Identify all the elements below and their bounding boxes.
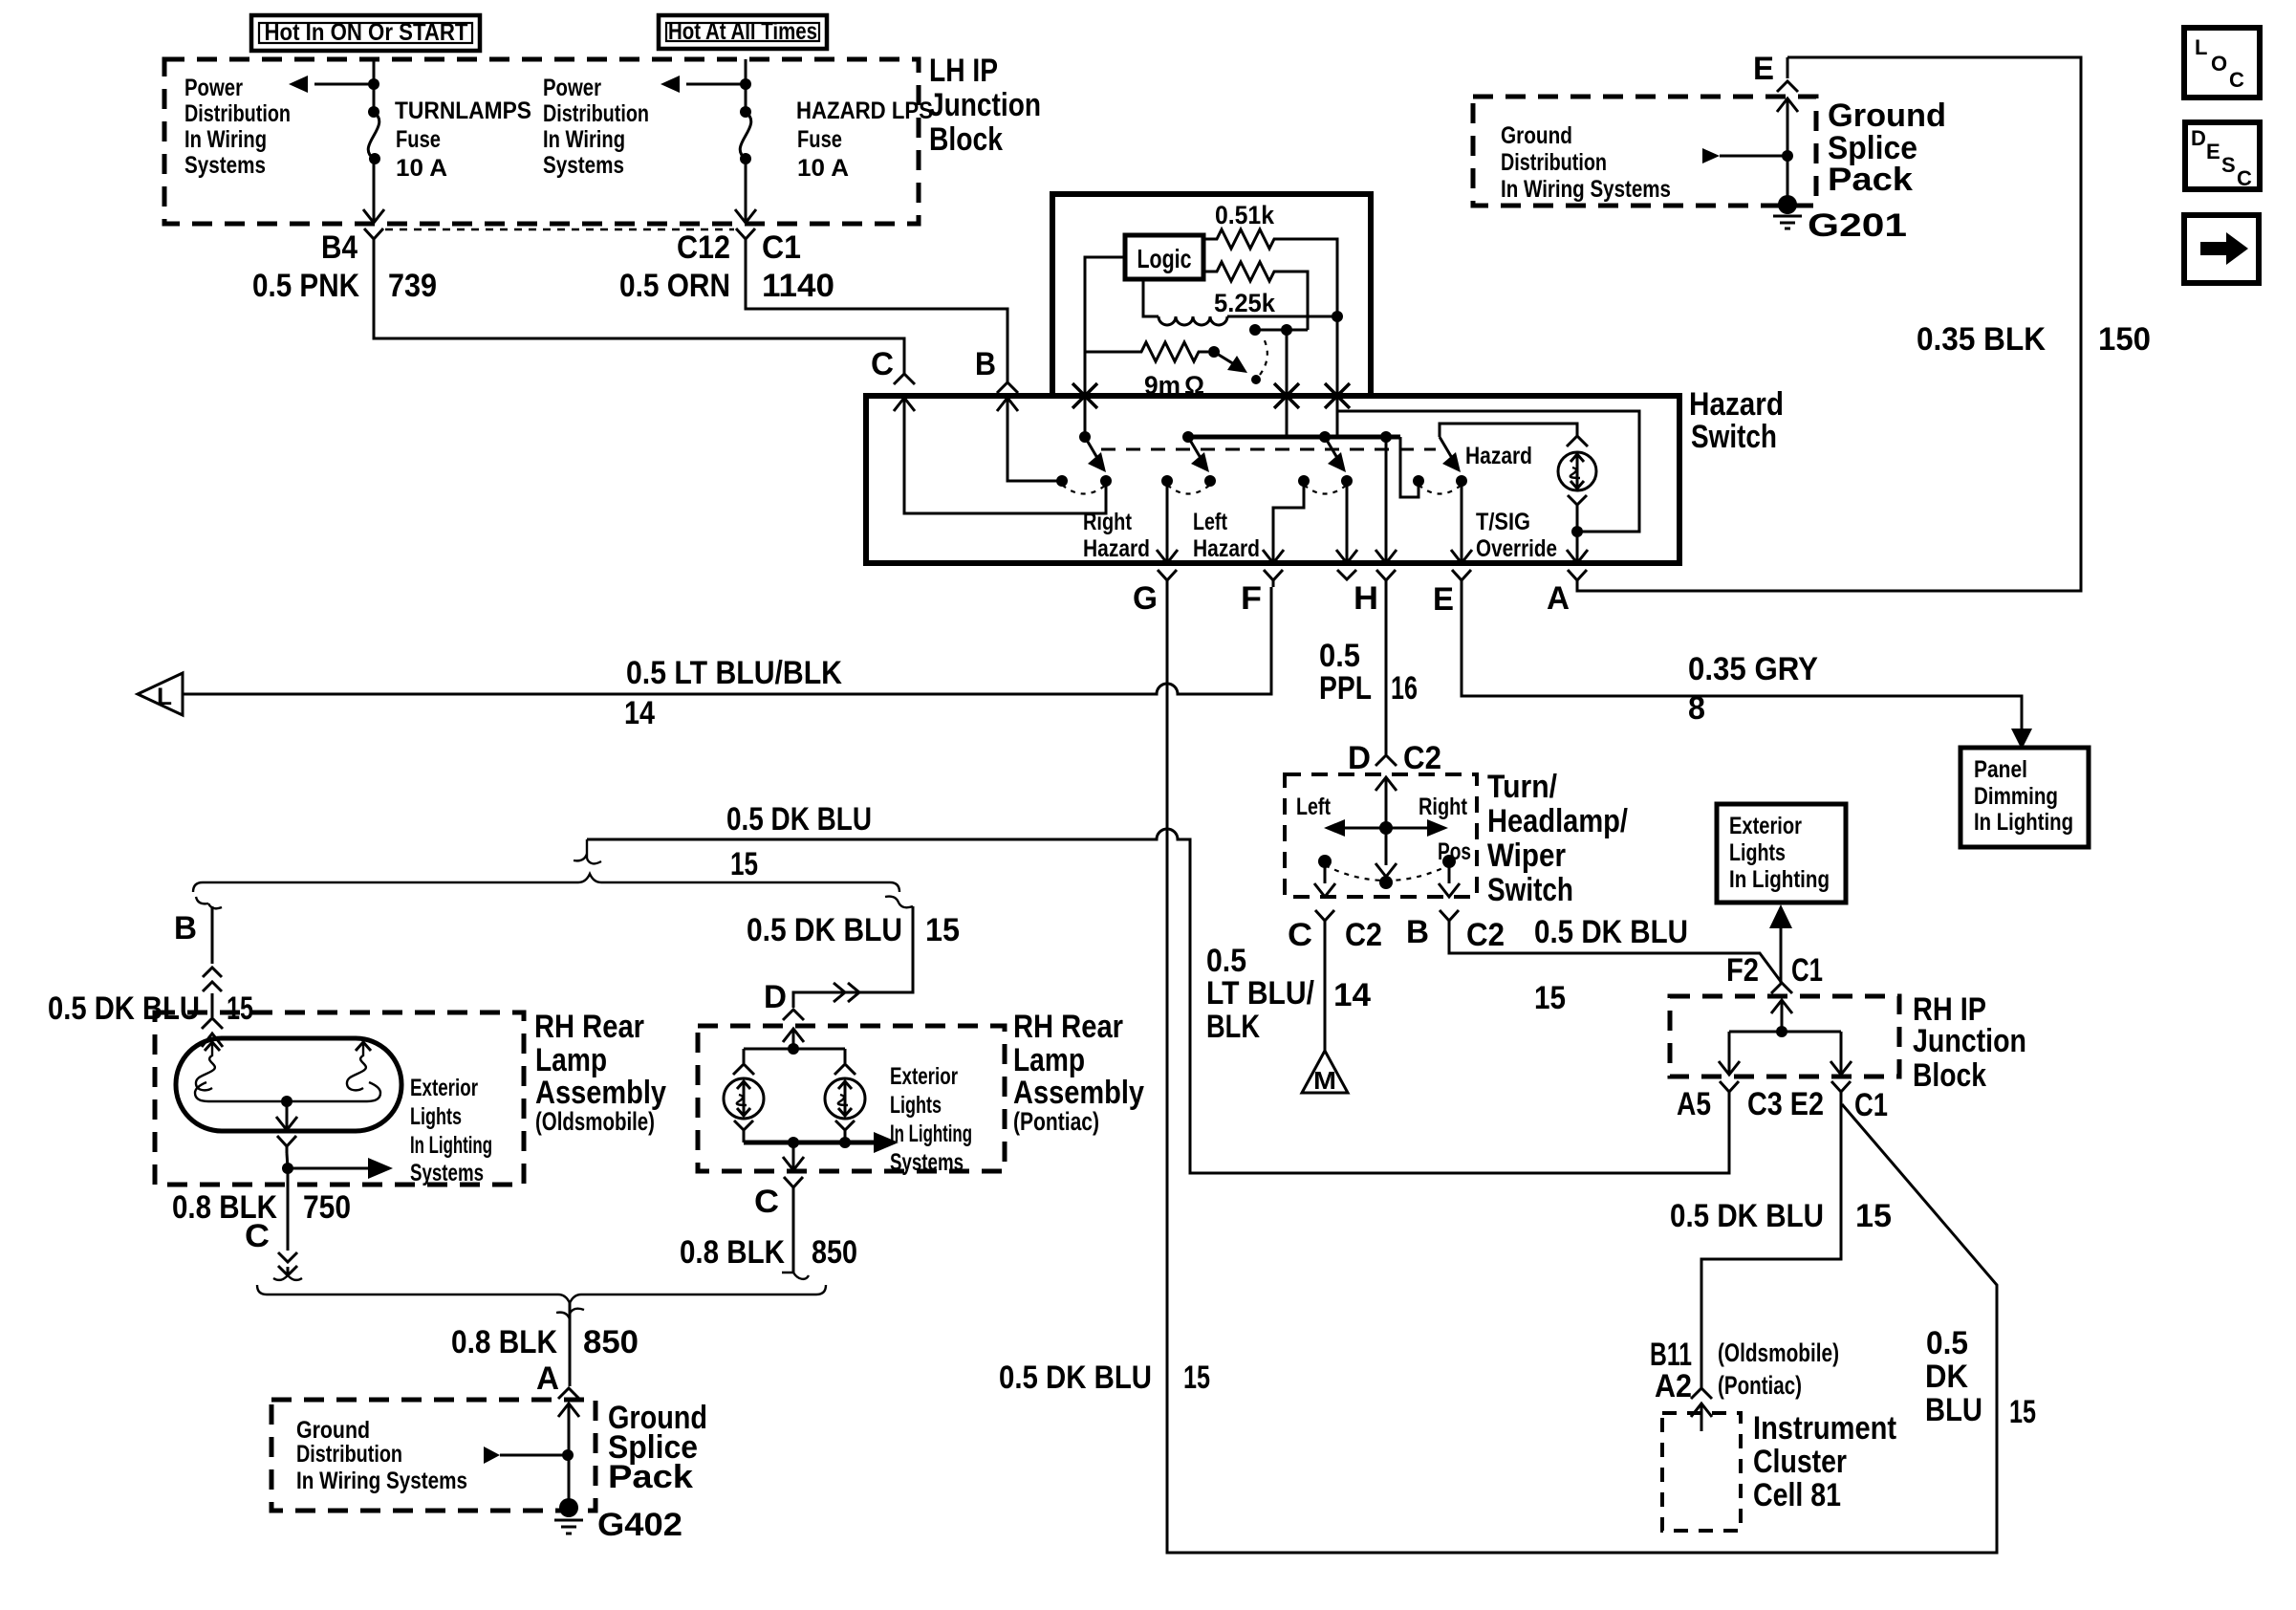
svg-text:C: C <box>2229 68 2244 92</box>
svg-text:14: 14 <box>624 695 655 731</box>
svg-text:C1: C1 <box>1791 952 1823 989</box>
svg-text:Pack: Pack <box>1828 162 1913 198</box>
svg-text:Hazard: Hazard <box>1083 535 1150 562</box>
svg-text:E: E <box>2206 140 2220 163</box>
svg-text:H: H <box>1354 580 1378 617</box>
svg-text:8: 8 <box>1688 690 1705 727</box>
svg-text:Hazard: Hazard <box>1193 535 1260 562</box>
svg-text:Power: Power <box>184 75 243 101</box>
svg-text:Switch: Switch <box>1691 419 1777 455</box>
svg-text:HAZARD LPS: HAZARD LPS <box>796 98 933 124</box>
svg-text:C12: C12 <box>677 229 730 266</box>
svg-text:Headlamp/: Headlamp/ <box>1487 803 1628 839</box>
svg-text:0.5 DK BLU: 0.5 DK BLU <box>726 801 872 838</box>
svg-text:C2: C2 <box>1403 740 1441 776</box>
svg-text:Fuse: Fuse <box>396 126 441 153</box>
svg-text:Left: Left <box>1193 509 1228 535</box>
svg-text:0.5 DK BLU: 0.5 DK BLU <box>747 912 902 948</box>
svg-text:Junction: Junction <box>1913 1023 2026 1059</box>
svg-text:PPL: PPL <box>1319 670 1372 707</box>
svg-text:C2: C2 <box>1466 917 1505 953</box>
svg-text:Cluster: Cluster <box>1753 1444 1847 1480</box>
svg-text:A5: A5 <box>1677 1086 1711 1122</box>
svg-text:In Wiring: In Wiring <box>543 126 625 153</box>
svg-text:0.5 DK BLU: 0.5 DK BLU <box>999 1360 1152 1396</box>
svg-text:750: 750 <box>303 1189 351 1226</box>
svg-text:16: 16 <box>1391 670 1418 707</box>
svg-text:9m: 9m <box>1144 371 1180 400</box>
svg-text:Ground: Ground <box>296 1417 370 1444</box>
svg-text:In Wiring: In Wiring <box>184 126 267 153</box>
svg-text:(Oldsmobile): (Oldsmobile) <box>1718 1338 1839 1367</box>
svg-text:(Pontiac): (Pontiac) <box>1013 1107 1099 1136</box>
svg-text:F2: F2 <box>1726 952 1759 989</box>
svg-text:10 A: 10 A <box>797 155 849 182</box>
svg-text:RH Rear: RH Rear <box>1013 1009 1123 1045</box>
svg-text:Ground: Ground <box>1828 98 1946 134</box>
svg-text:Block: Block <box>1913 1057 1986 1094</box>
svg-text:In Wiring Systems: In Wiring Systems <box>1501 176 1671 203</box>
svg-text:Pos: Pos <box>1438 838 1471 865</box>
svg-text:Lamp: Lamp <box>1013 1042 1085 1078</box>
svg-text:Right: Right <box>1083 509 1133 535</box>
svg-text:Right: Right <box>1419 794 1468 820</box>
svg-text:DK: DK <box>1925 1359 1968 1395</box>
svg-text:15: 15 <box>730 846 758 882</box>
svg-text:F: F <box>1241 580 1262 617</box>
svg-text:Instrument: Instrument <box>1753 1410 1896 1447</box>
svg-text:0.8 BLK: 0.8 BLK <box>451 1324 557 1360</box>
svg-text:B: B <box>1406 914 1429 950</box>
svg-text:T/SIG: T/SIG <box>1476 509 1530 535</box>
svg-text:15: 15 <box>2009 1394 2036 1430</box>
svg-text:Assembly: Assembly <box>1013 1075 1144 1111</box>
svg-text:G201: G201 <box>1808 207 1907 244</box>
svg-text:G: G <box>1133 580 1158 617</box>
svg-text:Lamp: Lamp <box>535 1042 607 1078</box>
svg-text:L: L <box>2195 35 2207 59</box>
svg-text:D: D <box>764 979 787 1015</box>
svg-text:0.5: 0.5 <box>1319 638 1360 674</box>
svg-text:C: C <box>245 1218 270 1254</box>
svg-text:Hot At All Times: Hot At All Times <box>668 18 817 45</box>
svg-text:In Lighting: In Lighting <box>410 1132 492 1159</box>
svg-text:In Wiring Systems: In Wiring Systems <box>296 1468 467 1494</box>
svg-text:Override: Override <box>1476 535 1557 562</box>
svg-text:Hot In ON Or START: Hot In ON Or START <box>265 19 468 46</box>
svg-text:C: C <box>754 1184 779 1220</box>
svg-text:Block: Block <box>929 121 1003 158</box>
svg-text:Exterior: Exterior <box>890 1063 958 1090</box>
svg-text:In Lighting: In Lighting <box>1729 866 1830 893</box>
svg-text:0.35 BLK: 0.35 BLK <box>1917 321 2046 358</box>
svg-text:G402: G402 <box>597 1507 682 1543</box>
svg-text:C: C <box>2237 166 2252 190</box>
svg-text:C: C <box>871 346 894 382</box>
svg-text:A2: A2 <box>1655 1368 1692 1404</box>
svg-text:15: 15 <box>227 990 253 1027</box>
svg-text:850: 850 <box>812 1234 857 1271</box>
svg-text:C1: C1 <box>1854 1087 1888 1123</box>
svg-text:Assembly: Assembly <box>535 1075 666 1111</box>
svg-text:S: S <box>2221 153 2236 177</box>
svg-text:150: 150 <box>2098 321 2151 358</box>
svg-text:LH IP: LH IP <box>929 53 998 89</box>
svg-text:B4: B4 <box>321 229 357 266</box>
svg-text:Systems: Systems <box>184 152 266 179</box>
svg-text:Lights: Lights <box>890 1092 942 1119</box>
svg-text:D: D <box>1348 740 1371 776</box>
svg-text:0.5 DK BLU: 0.5 DK BLU <box>1670 1198 1824 1234</box>
svg-text:D: D <box>2191 126 2206 150</box>
svg-text:C3 E2: C3 E2 <box>1747 1086 1824 1122</box>
svg-text:Logic: Logic <box>1137 244 1192 273</box>
svg-text:Wiper: Wiper <box>1487 838 1566 874</box>
svg-text:Switch: Switch <box>1487 872 1573 908</box>
svg-text:E: E <box>1753 51 1774 87</box>
svg-text:14: 14 <box>1333 977 1371 1013</box>
svg-text:0.5: 0.5 <box>1926 1325 1968 1361</box>
svg-text:Pack: Pack <box>608 1459 693 1495</box>
svg-text:BLU: BLU <box>1925 1392 1982 1428</box>
svg-text:Exterior: Exterior <box>1729 813 1802 839</box>
svg-text:0.35 GRY: 0.35 GRY <box>1688 651 1818 687</box>
svg-text:E: E <box>1433 581 1454 618</box>
svg-text:LT BLU/: LT BLU/ <box>1206 975 1314 1012</box>
svg-text:0.5 ORN: 0.5 ORN <box>619 268 730 304</box>
svg-text:0.5 DK BLU: 0.5 DK BLU <box>48 990 200 1027</box>
svg-text:C2: C2 <box>1345 917 1382 953</box>
svg-text:Lights: Lights <box>1729 839 1786 866</box>
svg-text:0.5 LT BLU/BLK: 0.5 LT BLU/BLK <box>626 655 842 691</box>
svg-text:Hazard: Hazard <box>1465 443 1532 469</box>
svg-text:0.5 PNK: 0.5 PNK <box>252 268 359 304</box>
svg-text:Distribution: Distribution <box>296 1441 402 1468</box>
svg-text:5.25k: 5.25k <box>1214 289 1276 317</box>
svg-text:A: A <box>536 1360 559 1397</box>
svg-text:Ground: Ground <box>1501 122 1572 149</box>
svg-text:B: B <box>174 910 197 946</box>
svg-text:(Oldsmobile): (Oldsmobile) <box>535 1107 655 1136</box>
svg-text:15: 15 <box>1855 1198 1892 1234</box>
svg-text:739: 739 <box>388 268 437 304</box>
svg-text:Distribution: Distribution <box>543 100 649 127</box>
svg-text:Power: Power <box>543 75 601 101</box>
svg-text:Exterior: Exterior <box>410 1075 478 1101</box>
svg-text:Turn/: Turn/ <box>1487 769 1557 805</box>
svg-text:Ω: Ω <box>1184 371 1204 400</box>
svg-text:15: 15 <box>1183 1360 1210 1396</box>
svg-text:0.8 BLK: 0.8 BLK <box>680 1234 785 1271</box>
svg-text:Lights: Lights <box>410 1103 462 1130</box>
svg-text:TURNLAMPS: TURNLAMPS <box>395 98 531 124</box>
svg-text:Hazard: Hazard <box>1689 386 1784 423</box>
svg-text:Panel: Panel <box>1974 756 2027 783</box>
svg-text:A: A <box>1547 580 1570 617</box>
svg-text:15: 15 <box>925 912 960 948</box>
svg-text:(Pontiac): (Pontiac) <box>1718 1371 1802 1400</box>
svg-text:15: 15 <box>1534 980 1566 1016</box>
svg-text:RH Rear: RH Rear <box>534 1009 644 1045</box>
svg-text:0.51k: 0.51k <box>1215 201 1275 229</box>
svg-text:L: L <box>157 684 172 710</box>
svg-text:Junction: Junction <box>929 87 1041 123</box>
svg-text:Systems: Systems <box>890 1149 964 1176</box>
svg-text:B: B <box>975 346 996 382</box>
svg-text:1140: 1140 <box>762 268 834 304</box>
svg-text:In Lighting: In Lighting <box>1974 809 2073 836</box>
svg-text:O: O <box>2211 52 2227 76</box>
svg-text:Distribution: Distribution <box>1501 149 1607 176</box>
svg-text:0.5: 0.5 <box>1206 943 1246 979</box>
svg-text:C: C <box>1288 917 1312 953</box>
svg-text:Fuse: Fuse <box>797 126 842 153</box>
svg-text:In Lighting: In Lighting <box>890 1120 972 1147</box>
svg-text:Systems: Systems <box>410 1160 484 1186</box>
svg-text:M: M <box>1313 1066 1336 1095</box>
svg-text:Left: Left <box>1296 794 1332 820</box>
svg-text:850: 850 <box>583 1324 639 1360</box>
svg-text:Dimming: Dimming <box>1974 783 2058 810</box>
svg-text:Systems: Systems <box>543 152 624 179</box>
svg-text:Distribution: Distribution <box>184 100 291 127</box>
svg-text:0.5 DK BLU: 0.5 DK BLU <box>1534 914 1688 950</box>
svg-text:10 A: 10 A <box>396 155 447 182</box>
svg-text:BLK: BLK <box>1206 1009 1260 1045</box>
svg-text:Cell 81: Cell 81 <box>1753 1477 1841 1513</box>
svg-text:C1: C1 <box>762 229 801 266</box>
